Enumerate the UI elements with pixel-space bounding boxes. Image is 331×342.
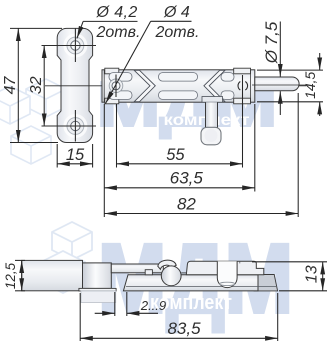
bottom clip tab	[234, 98, 251, 104]
rail bottom left stub	[109, 91, 132, 100]
watermark top logo cube 2	[11, 126, 51, 164]
body hole left	[109, 75, 123, 98]
plate hole top	[71, 41, 80, 50]
svg-text:32: 32	[28, 76, 45, 94]
svg-text:2отв.: 2отв.	[155, 24, 200, 41]
body right cap line	[250, 70, 252, 102]
dim 32	[43, 46, 45, 127]
knob stem	[206, 102, 218, 128]
chevron right-pointing	[134, 70, 225, 101]
svg-text:Ø 7,5: Ø 7,5	[262, 21, 281, 64]
label Ø4 2отв. with leader	[106, 21, 192, 103]
guide deck	[186, 261, 263, 275]
deck tick	[239, 261, 241, 263]
dim 82	[104, 93, 298, 217]
rod	[255, 77, 299, 91]
barrel cylinder	[83, 263, 112, 289]
plate hole top countersink	[67, 37, 84, 54]
rail bottom right stub	[221, 91, 234, 100]
bottom left clip tab	[105, 98, 119, 104]
body side bar	[123, 275, 258, 291]
watermark bottom logo cube 1	[52, 222, 92, 260]
plate hole bottom countersink	[67, 118, 84, 135]
rail top middle slot	[159, 73, 198, 82]
right wedge	[254, 275, 278, 291]
svg-text:83,5: 83,5	[167, 319, 201, 338]
keeper plate outline	[57, 28, 92, 142]
svg-text:14,5: 14,5	[302, 71, 318, 98]
body inner line	[126, 285, 276, 287]
dim 83,5	[80, 293, 278, 341]
rail top left stub	[109, 73, 132, 82]
knob curl	[158, 260, 176, 269]
dim 2...9	[95, 292, 158, 316]
dim 13	[252, 262, 327, 291]
svg-text:2...9: 2...9	[140, 298, 166, 313]
dim 12,5	[15, 260, 25, 290]
svg-text:82: 82	[177, 194, 196, 213]
svg-text:13: 13	[304, 265, 321, 283]
dim 63,5	[104, 104, 255, 217]
body hole right	[238, 82, 248, 91]
top left clip tab	[105, 68, 119, 74]
knob slider block	[202, 97, 223, 103]
label Ø7,5 with extension	[279, 22, 281, 116]
barrel flange	[79, 288, 116, 291]
centerline horizontal	[45, 85, 306, 87]
dim 14,5	[257, 53, 323, 116]
body left cap line	[103, 70, 105, 102]
svg-text:63,5: 63,5	[170, 169, 204, 188]
svg-text:55: 55	[166, 146, 185, 164]
rod centerline	[252, 84, 306, 86]
knob circle side	[161, 266, 181, 286]
svg-text:Ø 4: Ø 4	[163, 4, 190, 21]
bolt rod side	[111, 264, 163, 273]
rail bottom middle slot	[159, 91, 198, 100]
label Ø4,2 2отв. with leader	[77, 21, 138, 38]
surface line segment	[181, 272, 187, 274]
dim 47	[10, 28, 62, 142]
top clip tab	[234, 68, 251, 74]
plate hole bottom	[71, 121, 80, 130]
crosshair hole bottom	[42, 110, 97, 142]
keeper plate side	[22, 260, 83, 290]
U bottom ellipse	[220, 282, 235, 285]
watermark top logo cube 3 (partial, left edge)	[0, 86, 30, 124]
crosshair hole top	[42, 29, 97, 63]
svg-text:Ø 4,2: Ø 4,2	[96, 4, 138, 21]
rail top right stub	[221, 73, 234, 82]
watermark top logo cube 1	[26, 79, 66, 117]
body outline	[102, 68, 255, 104]
dim 15	[57, 144, 92, 168]
barrel skirt	[81, 291, 116, 303]
svg-text:15: 15	[66, 146, 85, 164]
plate hole bottom glow	[63, 114, 87, 138]
chevron left-pointing	[204, 70, 225, 101]
watermark bottom logo cube 2	[41, 251, 85, 293]
svg-text:12,5: 12,5	[3, 262, 18, 289]
U cutout	[217, 261, 237, 287]
dim 55	[117, 75, 243, 168]
catch step	[145, 270, 152, 275]
svg-text:2отв.: 2отв.	[96, 24, 141, 41]
svg-text:47: 47	[2, 76, 19, 95]
knob ball	[201, 127, 221, 145]
plate hole top glow	[63, 34, 87, 58]
